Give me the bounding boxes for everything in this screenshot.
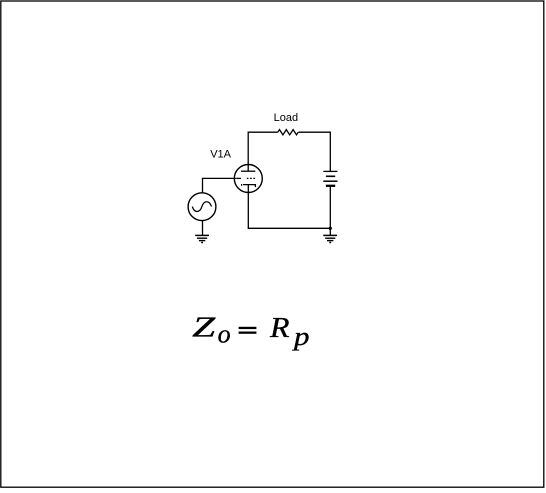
svg-text:Z: Z: [192, 312, 216, 344]
wire: resistor to battery top: [299, 132, 331, 171]
svg-text:V1A: V1A: [210, 149, 231, 161]
triode tube V1A: [234, 164, 262, 192]
wire: AC source bottom to ground: [202, 221, 204, 236]
wire: tube plate up to top rail: [248, 132, 278, 164]
svg-text:o: o: [218, 319, 231, 348]
equation Zo = Rp: [192, 312, 309, 351]
ground (left): [195, 235, 209, 242]
equation equals sign: [239, 327, 257, 334]
junction dot: [329, 227, 332, 230]
ground (right): [323, 235, 337, 242]
wire: battery bottom to ground: [329, 187, 331, 235]
wire: AC source top to tube grid: [203, 178, 237, 193]
AC source V2: [188, 193, 216, 221]
svg-text:p: p: [292, 322, 310, 351]
battery V1: [323, 171, 337, 185]
resistor Load: [278, 130, 298, 135]
svg-text:Load: Load: [274, 112, 298, 124]
svg-text:R: R: [269, 312, 290, 344]
wire: tube cathode down and bottom rail: [248, 193, 330, 229]
